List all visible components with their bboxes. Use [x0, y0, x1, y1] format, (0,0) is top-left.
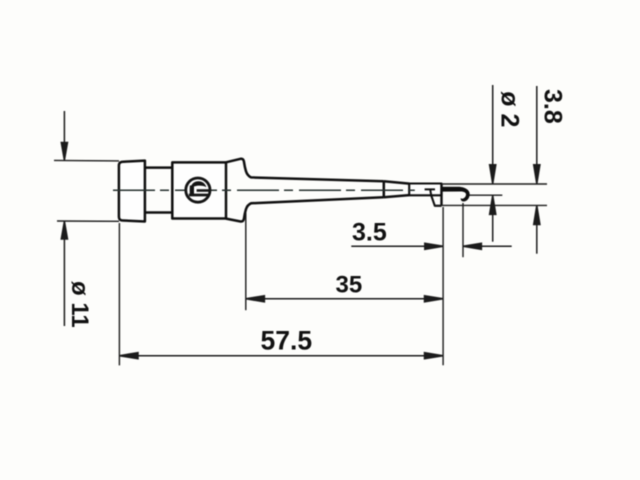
logo glyph bottom band — [189, 194, 210, 197]
dim 3.5 right extension line — [462, 203, 464, 257]
logo glyph crossbar — [197, 189, 210, 192]
dim 3.5 right tail line — [465, 245, 512, 247]
rear cap sleeve of probe — [119, 161, 145, 222]
dim 35 left arrowhead — [246, 296, 265, 302]
dim ø11 upper arrow line — [63, 111, 65, 158]
main square body — [172, 162, 226, 218]
metal cone tip section — [384, 181, 409, 197]
logo circle on body — [186, 178, 210, 202]
dim ø11 lower arrowhead — [61, 221, 67, 239]
dim ø2 upper arrowhead — [490, 165, 496, 184]
dim 3.5 left tail line — [351, 245, 441, 247]
collar and trumpet taper, top outline — [226, 159, 384, 181]
dim 3.8 upper arrow line — [536, 86, 538, 182]
dim ø11 top extension line — [54, 159, 119, 162]
dim ø2 lower arrowhead — [490, 195, 496, 214]
sleeve right edge — [440, 184, 442, 206]
dim 3.8 lower arrowhead — [534, 206, 540, 225]
tip middle extension line — [470, 194, 503, 196]
grabber hook pin and curl — [442, 187, 470, 202]
dim ø2 lower arrow line — [492, 198, 494, 242]
collar and trumpet taper, bottom outline — [226, 197, 384, 221]
dim 57.5 right arrowhead — [425, 353, 444, 359]
dim ø11 lower arrow line — [63, 223, 65, 326]
sliding foot tab — [431, 195, 441, 205]
dim 35 right arrowhead — [425, 296, 444, 302]
dim ø11 bottom extension line — [57, 220, 119, 222]
dim 57.5 right extension line — [442, 207, 444, 365]
dim ø11 upper arrowhead — [61, 143, 67, 161]
neck groove — [145, 168, 172, 213]
svg-text:3.8: 3.8 — [539, 89, 567, 124]
svg-text:ø 11: ø 11 — [66, 281, 93, 328]
step at end of tapered shaft — [383, 181, 386, 197]
tip bottom extension line — [435, 204, 547, 206]
dim 57.5 dimension line — [121, 355, 442, 357]
dim 35 left extension line — [245, 212, 247, 310]
logo glyph top band — [191, 181, 207, 187]
dim 3.5 right-pointing arrowhead — [425, 243, 443, 249]
svg-text:35: 35 — [336, 271, 363, 298]
svg-text:ø 2: ø 2 — [496, 91, 524, 127]
dim 57.5 left arrowhead — [119, 353, 138, 359]
logo glyph left stroke — [190, 185, 194, 195]
centerline axis — [113, 189, 415, 191]
dim 3.5 left-pointing arrowhead — [463, 243, 481, 249]
inner slot mark — [425, 189, 435, 195]
probe tip sleeve — [409, 184, 441, 196]
dim 3.8 lower arrow line — [536, 208, 538, 254]
svg-text:57.5: 57.5 — [261, 326, 313, 356]
dim 35 dimension line — [247, 298, 441, 300]
dim ø2 upper arrow line — [492, 85, 494, 182]
dim 3.8 upper arrowhead — [534, 165, 540, 184]
tip top extension line — [442, 183, 548, 185]
svg-text:3.5: 3.5 — [352, 218, 387, 246]
dim 57.5 left extension line — [118, 223, 120, 365]
